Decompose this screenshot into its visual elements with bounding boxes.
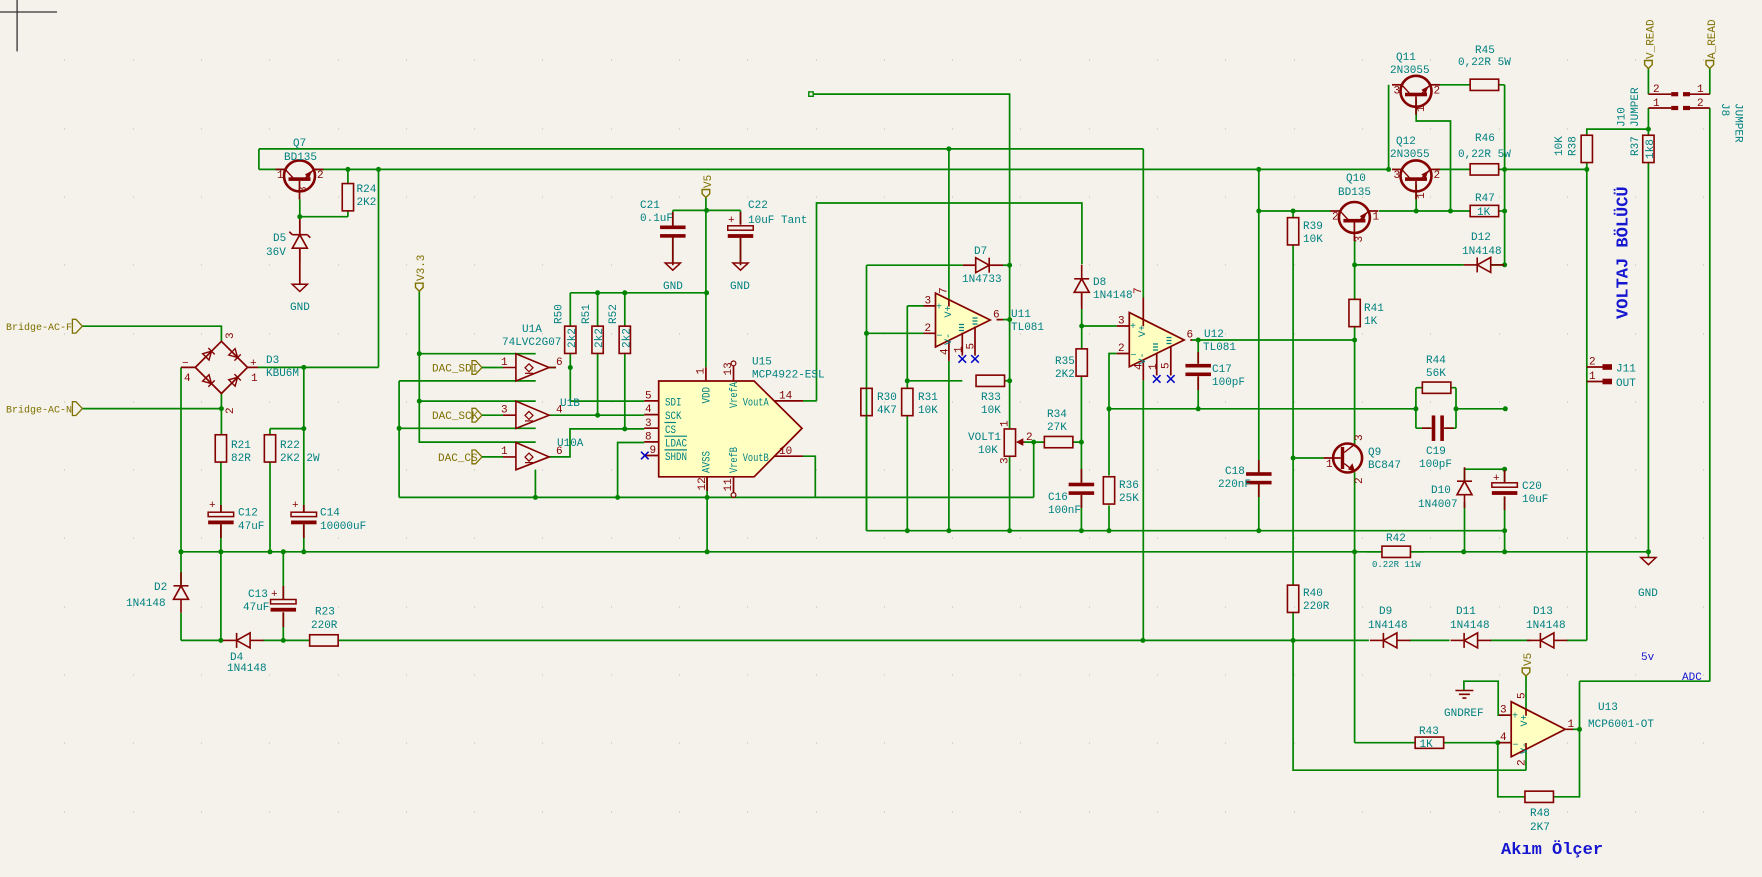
- svg-text:BD135: BD135: [284, 152, 317, 164]
- svg-text:R38: R38: [1568, 136, 1580, 156]
- svg-text:ADC: ADC: [1682, 672, 1702, 684]
- bridge rectifier D3: [181, 341, 258, 393]
- wire: R42 leads on gnd rail: [1367, 551, 1424, 553]
- svg-text:R42: R42: [1386, 533, 1406, 545]
- svg-text:V_READ: V_READ: [1646, 19, 1658, 59]
- svg-text:R47: R47: [1475, 193, 1495, 205]
- svg-text:+: +: [271, 589, 278, 601]
- gate U10A: [503, 443, 549, 470]
- svg-text:Q9: Q9: [1368, 447, 1381, 459]
- svg-text:J10: J10: [1617, 107, 1629, 127]
- capacitor C21: [660, 226, 686, 238]
- wire: R21 C12 column: [220, 462, 222, 640]
- wire: R46 left: [1435, 168, 1470, 170]
- wire: negative rail row 640: [181, 613, 1587, 641]
- capacitor C18: [1246, 472, 1272, 484]
- diode D8: [1074, 265, 1089, 306]
- wire: C14 bottom: [303, 524, 305, 552]
- svg-text:V-: V-: [944, 333, 955, 345]
- diode D11: [1451, 633, 1492, 648]
- wire: Q9 emitter col to R43: [1355, 472, 1416, 742]
- wire: C17 column: [1197, 340, 1199, 409]
- capacitor C22: [728, 226, 754, 238]
- svg-text:D5: D5: [273, 233, 286, 245]
- svg-text:DAC_SDI: DAC_SDI: [432, 364, 478, 376]
- global label DAC_SCK: [472, 408, 482, 422]
- wire: C13 column: [282, 552, 284, 641]
- svg-text:3: 3: [1118, 316, 1125, 328]
- resistor R42: [1382, 546, 1411, 557]
- wire: R50-52 pullup top row: [570, 293, 706, 326]
- wire: gate1 top line: [419, 353, 535, 355]
- resistor R44: [1422, 382, 1451, 393]
- svg-text:1: 1: [954, 346, 966, 353]
- wire: R22 bottom: [269, 462, 271, 552]
- svg-text:U10A: U10A: [557, 438, 584, 450]
- wire: gnd stem right: [1647, 552, 1649, 558]
- svg-text:R22: R22: [280, 440, 300, 452]
- svg-text:2K2: 2K2: [1055, 369, 1075, 381]
- wire: R30 bottom to rail: [866, 416, 868, 531]
- svg-text:A_READ: A_READ: [1707, 19, 1719, 59]
- transistor Q12: [1392, 160, 1440, 199]
- svg-text:GND: GND: [290, 302, 310, 314]
- svg-text:VrefA: VrefA: [729, 382, 741, 408]
- svg-text:10000uF: 10000uF: [320, 521, 366, 533]
- svg-text:J11: J11: [1616, 364, 1636, 376]
- svg-text:Q12: Q12: [1396, 136, 1416, 148]
- svg-text:2K7: 2K7: [1530, 822, 1550, 834]
- wire: VoutA to D8 rail: [817, 203, 1082, 401]
- svg-text:10K: 10K: [918, 405, 938, 417]
- svg-text:+: +: [1130, 322, 1136, 333]
- svg-text:220R: 220R: [311, 620, 338, 632]
- svg-text:−: −: [1513, 741, 1519, 752]
- global label DAC_SDI: [472, 361, 482, 375]
- resistor R45: [1470, 79, 1499, 90]
- wire: R37 bottom long drop: [1647, 163, 1649, 552]
- svg-text:8: 8: [645, 432, 652, 444]
- svg-text:D9: D9: [1379, 606, 1392, 618]
- svg-text:OUT: OUT: [1616, 378, 1636, 390]
- wire: VoutA lead ext: [803, 400, 817, 402]
- svg-text:1N4148: 1N4148: [1093, 290, 1133, 302]
- svg-text:0.1uF: 0.1uF: [640, 213, 673, 225]
- wire: Q9 base from R39 col: [1293, 457, 1324, 459]
- svg-text:+: +: [936, 303, 942, 314]
- svg-text:6: 6: [1187, 330, 1194, 342]
- wire: Q11 leads: [1435, 84, 1470, 86]
- svg-text:2: 2: [1434, 85, 1441, 97]
- svg-text:SHDN: SHDN: [665, 452, 687, 464]
- wire: R33 left row: [907, 380, 962, 382]
- wire: R38 top: [1587, 108, 1649, 169]
- U15 right pins: [775, 401, 803, 456]
- svg-text:3: 3: [645, 418, 652, 430]
- resistor R21: [215, 435, 226, 462]
- svg-text:GND: GND: [1638, 588, 1658, 600]
- wire: Q11 collector riser: [1388, 85, 1390, 170]
- svg-text:JUMPER: JUMPER: [1732, 103, 1744, 143]
- svg-text:R45: R45: [1475, 45, 1495, 57]
- power label V5 top: [702, 190, 710, 198]
- svg-text:2: 2: [317, 170, 324, 182]
- wire: V5 to pin5: [1525, 676, 1527, 709]
- wire: D10 top link: [1465, 469, 1505, 481]
- svg-text:2: 2: [1354, 477, 1366, 484]
- svg-text:1: 1: [1373, 212, 1380, 224]
- svg-text:J8: J8: [1718, 103, 1730, 116]
- svg-text:7: 7: [939, 287, 951, 294]
- wire: R33 right to vert: [1005, 380, 1010, 382]
- svg-text:BC847: BC847: [1368, 460, 1401, 472]
- svg-text:Bridge-AC-F: Bridge-AC-F: [6, 322, 72, 334]
- svg-text:74LVC2G07: 74LVC2G07: [502, 337, 561, 349]
- svg-text:R51: R51: [581, 304, 593, 324]
- svg-text:R40: R40: [1303, 588, 1323, 600]
- transistor Q10: [1330, 202, 1378, 241]
- power label V_READ: [1645, 61, 1653, 69]
- svg-text:R33: R33: [981, 392, 1001, 404]
- diode D7: [963, 258, 1003, 273]
- wire: LDAC riser: [618, 443, 645, 498]
- svg-text:R36: R36: [1119, 480, 1139, 492]
- svg-text:1N4148: 1N4148: [1368, 620, 1408, 632]
- gate U1A: [503, 354, 556, 381]
- svg-text:D13: D13: [1533, 606, 1553, 618]
- svg-text:R39: R39: [1303, 221, 1323, 233]
- svg-text:AVSS: AVSS: [702, 451, 714, 473]
- svg-text:R52: R52: [608, 304, 620, 324]
- svg-text:TL081: TL081: [1203, 342, 1236, 354]
- capacitor C16: [1069, 483, 1095, 495]
- wire: Q9 collector col: [1354, 340, 1356, 444]
- svg-text:12: 12: [697, 477, 709, 490]
- wire: V3.3 rail down gates: [419, 291, 535, 442]
- svg-text:U12: U12: [1204, 329, 1224, 341]
- svg-text:3: 3: [1394, 170, 1401, 182]
- svg-text:6: 6: [556, 357, 563, 369]
- svg-text:10uF Tant: 10uF Tant: [748, 215, 807, 227]
- svg-text:1: 1: [277, 170, 284, 182]
- wire: R45 right vert: [1499, 85, 1505, 265]
- svg-text:10K: 10K: [1554, 136, 1566, 156]
- svg-text:+: +: [1493, 473, 1500, 485]
- U15 top pins: [706, 366, 734, 381]
- svg-text:1: 1: [251, 373, 258, 385]
- svg-text:3: 3: [925, 296, 932, 308]
- wire: C18 column: [1258, 169, 1260, 530]
- svg-text:0,22R 5W: 0,22R 5W: [1458, 57, 1511, 69]
- wire: U11 pin7 riser: [948, 149, 950, 300]
- svg-text:1N4148: 1N4148: [126, 598, 166, 610]
- wire: Q12 emitter: [1415, 184, 1417, 211]
- svg-text:1K: 1K: [1420, 739, 1434, 751]
- svg-text:DAC_SCK: DAC_SCK: [432, 411, 479, 423]
- wire: bridge plus node: [258, 367, 379, 512]
- ground under C22: [733, 263, 748, 270]
- svg-text:R48: R48: [1530, 808, 1550, 820]
- wire: gate2 top line / SDI row: [419, 368, 644, 402]
- wire: V5 column to VDD: [705, 198, 707, 368]
- svg-text:2: 2: [1697, 98, 1704, 110]
- svg-text:2: 2: [1589, 357, 1596, 369]
- svg-text:R30: R30: [877, 392, 897, 404]
- wire: R31 bottom: [906, 416, 908, 531]
- svg-text:1: 1: [1000, 420, 1012, 427]
- svg-text:C19: C19: [1426, 446, 1446, 458]
- ground right: [1641, 558, 1656, 565]
- svg-text:1N4148: 1N4148: [1526, 620, 1566, 632]
- connector J11: [1587, 367, 1603, 382]
- svg-text:D3: D3: [266, 355, 279, 367]
- wire: J11 column: [1586, 169, 1588, 640]
- svg-text:D10: D10: [1431, 485, 1451, 497]
- svg-text:1N4148: 1N4148: [1450, 620, 1490, 632]
- svg-text:Q10: Q10: [1346, 173, 1366, 185]
- wire: wiper to R34 and drop: [1025, 442, 1045, 497]
- svg-text:KBU6M: KBU6M: [266, 368, 299, 380]
- power label A_READ: [1706, 61, 1714, 69]
- svg-text:1: 1: [1326, 459, 1333, 471]
- capacitor C13: [271, 600, 297, 612]
- svg-text:2: 2: [1434, 170, 1441, 182]
- wire: U12 out row 340: [1192, 339, 1355, 341]
- svg-text:+: +: [292, 500, 299, 512]
- svg-text:3: 3: [1394, 85, 1401, 97]
- wire: C22 gnd stem: [740, 237, 742, 262]
- svg-text:1k8: 1k8: [1645, 139, 1657, 159]
- svg-text:2: 2: [1332, 212, 1339, 224]
- wire: R34 right / R35 col / C16: [1073, 376, 1082, 531]
- svg-text:SCK: SCK: [665, 411, 682, 423]
- resistor R34: [1044, 436, 1073, 447]
- wire: bridge AC-F input: [82, 326, 221, 341]
- potentiometer VOLT1: [1004, 429, 1015, 456]
- diode D9: [1370, 633, 1411, 648]
- svg-text:VOLT1: VOLT1: [968, 432, 1001, 444]
- resistor R46: [1470, 164, 1499, 175]
- wire: R39 R40 column: [1292, 211, 1294, 640]
- svg-text:2N3055: 2N3055: [1390, 65, 1430, 77]
- svg-text:R21: R21: [231, 440, 251, 452]
- svg-text:V+: V+: [1138, 325, 1149, 337]
- svg-text:R46: R46: [1475, 133, 1495, 145]
- wire: top supply rail W1: [259, 149, 1143, 298]
- svg-text:2k2: 2k2: [567, 328, 579, 348]
- wire: V_READ drop: [1647, 69, 1649, 95]
- svg-text:1K: 1K: [1364, 316, 1378, 328]
- svg-text:C14: C14: [320, 508, 340, 520]
- U15 bottom pins: [707, 477, 733, 493]
- svg-text:BD135: BD135: [1338, 187, 1371, 199]
- wire: D7 loop / U11 pin2: [867, 265, 963, 531]
- svg-text:2K2 2W: 2K2 2W: [280, 453, 320, 465]
- capacitor C17: [1185, 364, 1211, 376]
- resistor R52: [619, 326, 630, 353]
- transistor Q7: [276, 160, 324, 199]
- svg-text:1N4148: 1N4148: [1462, 246, 1502, 258]
- svg-text:220R: 220R: [1303, 601, 1330, 613]
- wire: Q10 pin3 to D12 row: [1355, 241, 1505, 299]
- wire: output rail right: [1499, 168, 1587, 170]
- svg-text:2N3055: 2N3055: [1390, 149, 1430, 161]
- resistor R22: [264, 435, 275, 462]
- power label V5 bottom: [1522, 668, 1530, 676]
- resistor R37: [1643, 135, 1654, 162]
- svg-text:1: 1: [1697, 84, 1704, 96]
- wire: ADC row: [1573, 728, 1580, 730]
- svg-text:U15: U15: [752, 357, 772, 369]
- resistor R47: [1470, 205, 1499, 216]
- capacitor C19: [1432, 415, 1444, 441]
- svg-text:R44: R44: [1426, 355, 1446, 367]
- svg-text:C21: C21: [640, 200, 660, 212]
- svg-text:C17: C17: [1212, 364, 1232, 376]
- svg-text:MCP4922-ESL: MCP4922-ESL: [752, 370, 825, 382]
- resistor R39: [1287, 218, 1298, 245]
- svg-text:5: 5: [966, 343, 978, 350]
- diode D2: [174, 572, 189, 613]
- svg-text:36V: 36V: [266, 247, 286, 259]
- svg-text:3: 3: [1500, 705, 1507, 717]
- wire: gate3 out to CS: [549, 429, 644, 457]
- svg-text:D7: D7: [974, 246, 987, 258]
- svg-text:R50: R50: [554, 304, 566, 324]
- wire: bridge minus to D2 column: [180, 367, 182, 584]
- wire: C21 C22 top row: [673, 210, 741, 226]
- diode D10: [1457, 467, 1472, 508]
- svg-text:2: 2: [1118, 343, 1125, 355]
- resistor R41: [1349, 299, 1360, 326]
- svg-text:3: 3: [298, 186, 310, 193]
- wire: Q11 emitter jog: [1416, 100, 1450, 211]
- wire: A_READ drop: [1709, 69, 1711, 95]
- svg-text:R23: R23: [315, 607, 335, 619]
- svg-text:0,22R 5W: 0,22R 5W: [1458, 149, 1511, 161]
- wire: R48 loop: [1498, 729, 1580, 797]
- svg-text:C16: C16: [1048, 492, 1068, 504]
- svg-text:VoutB: VoutB: [743, 453, 769, 465]
- svg-text:100nF: 100nF: [1048, 505, 1081, 517]
- wire: R40 bottom drop and U13 pin2 row: [1293, 640, 1526, 770]
- svg-text:VOLTAJ BÖLÜCÜ: VOLTAJ BÖLÜCÜ: [1614, 186, 1634, 319]
- resistor R40: [1287, 585, 1298, 612]
- svg-text:2K2: 2K2: [357, 197, 377, 209]
- wire: gates gnd-side vertical: [399, 381, 536, 498]
- opamp U11 TL081: [936, 293, 991, 347]
- capacitor C14: [291, 512, 317, 524]
- wire: top stub with open end: [813, 94, 1010, 320]
- svg-text:1: 1: [1416, 105, 1428, 112]
- svg-text:U11: U11: [1011, 309, 1031, 321]
- svg-text:V3.3: V3.3: [416, 255, 428, 281]
- svg-text:10K: 10K: [978, 445, 998, 457]
- wire: R50 bottom to gate1 out: [549, 354, 570, 368]
- svg-text:11: 11: [723, 478, 735, 492]
- wire: U11 out lead ext: [1003, 319, 1010, 321]
- svg-text:C12: C12: [238, 508, 258, 520]
- svg-text:47uF: 47uF: [238, 521, 264, 533]
- zener D5: [289, 221, 310, 262]
- svg-text:TL081: TL081: [1011, 322, 1044, 334]
- svg-text:4: 4: [1500, 732, 1507, 744]
- svg-text:2: 2: [1653, 84, 1660, 96]
- resistor R31: [902, 388, 913, 415]
- svg-text:JUMPER: JUMPER: [1630, 87, 1642, 127]
- svg-text:V+: V+: [1520, 714, 1531, 726]
- wire: AVSS column: [706, 478, 708, 552]
- svg-text:10K: 10K: [981, 405, 1001, 417]
- global label Bridge-AC-F: [72, 319, 82, 333]
- svg-text:25K: 25K: [1119, 493, 1139, 505]
- wire: U11 pin4 drop: [948, 361, 950, 531]
- svg-text:D8: D8: [1093, 277, 1106, 289]
- svg-text:1: 1: [1568, 719, 1575, 731]
- wire: U11 out / R33 node vertical: [1009, 320, 1011, 429]
- svg-text:100pF: 100pF: [1212, 377, 1245, 389]
- svg-text:2: 2: [925, 323, 932, 335]
- wire: main gnd rail W11: [181, 551, 1648, 553]
- transistor Q9: [1324, 444, 1363, 473]
- svg-text:5: 5: [1161, 362, 1173, 369]
- wire: R44 C19 brackets: [1416, 388, 1456, 429]
- wire: GNDREF loop to pin3: [1464, 681, 1511, 715]
- svg-text:U13: U13: [1598, 702, 1618, 714]
- svg-text:4: 4: [645, 404, 652, 416]
- svg-text:V-: V-: [1138, 352, 1149, 364]
- svg-text:Q7: Q7: [293, 138, 306, 150]
- svg-text:+: +: [728, 215, 735, 227]
- svg-text:VrefB: VrefB: [729, 447, 741, 473]
- svg-text:C13: C13: [248, 589, 268, 601]
- svg-text:U1A: U1A: [522, 324, 542, 336]
- wire: R51 bottom: [597, 354, 599, 416]
- svg-text:10K: 10K: [1303, 234, 1323, 246]
- svg-text:−: −: [1131, 351, 1137, 362]
- svg-text:1: 1: [1148, 363, 1160, 370]
- wire: R41 bottom to row340: [1354, 327, 1356, 340]
- svg-text:3: 3: [1000, 457, 1012, 464]
- svg-text:R35: R35: [1055, 356, 1075, 368]
- svg-text:VoutA: VoutA: [743, 398, 769, 410]
- wire: Q10 out to R47: [1379, 210, 1470, 212]
- svg-text:0.22R 11W: 0.22R 11W: [1372, 560, 1421, 570]
- resistor R50: [565, 326, 576, 353]
- wire: C21 gnd stem: [672, 237, 674, 262]
- resistor R51: [592, 326, 603, 353]
- wire: AVSS / gates bottom rail: [399, 496, 1034, 498]
- wire: R47 right: [1499, 210, 1505, 212]
- svg-text:Bridge-AC-N: Bridge-AC-N: [6, 405, 72, 417]
- svg-text:R41: R41: [1364, 303, 1384, 315]
- wire: gate2 out to SCK: [549, 414, 644, 416]
- capacitor C12: [208, 512, 234, 524]
- svg-text:SDI: SDI: [665, 398, 682, 410]
- svg-text:GND: GND: [663, 281, 683, 293]
- svg-text:10uF: 10uF: [1522, 494, 1548, 506]
- resistor R23: [310, 635, 339, 646]
- svg-text:D2: D2: [154, 582, 167, 594]
- resistor R38: [1581, 135, 1592, 162]
- global label DAC_CS: [472, 450, 482, 464]
- svg-text:R24: R24: [357, 184, 377, 196]
- svg-text:R37: R37: [1630, 136, 1642, 156]
- svg-text:C20: C20: [1522, 481, 1542, 493]
- svg-text:1N4007: 1N4007: [1418, 499, 1458, 511]
- svg-text:−: −: [937, 332, 943, 343]
- svg-text:+: +: [250, 358, 257, 370]
